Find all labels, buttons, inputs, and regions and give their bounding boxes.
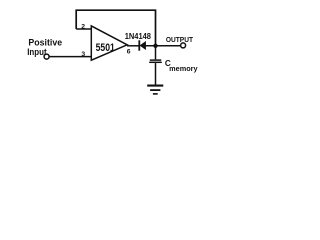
- svg-text:3: 3: [81, 51, 85, 58]
- wire pin 2 stub: [76, 28, 91, 30]
- svg-text:6: 6: [127, 48, 131, 55]
- node junction dot: [153, 44, 157, 48]
- ground: [147, 85, 163, 87]
- svg-text:Input: Input: [27, 47, 46, 57]
- svg-text:2: 2: [81, 24, 85, 31]
- op-amp U1 5501: [91, 26, 127, 60]
- diode D1 1N4148 (cathode bar left, anode right): [138, 40, 140, 50]
- svg-text:5501: 5501: [96, 42, 115, 54]
- svg-text:OUTPUT: OUTPUT: [166, 35, 194, 44]
- svg-text:memory: memory: [169, 64, 197, 73]
- node input terminal (open circle): [44, 54, 49, 59]
- wire capacitor to ground: [155, 63, 157, 85]
- wire feedback loop (pin2 up, across top, down to output node): [76, 10, 155, 45]
- wire positive input to pin 3: [49, 56, 91, 58]
- wire diode to output terminal: [146, 45, 181, 47]
- capacitor C memory: [150, 59, 161, 61]
- svg-text:1N4148: 1N4148: [125, 31, 151, 41]
- wire op-amp output to diode: [127, 45, 139, 47]
- node output terminal (open circle): [181, 43, 186, 48]
- wire junction down to capacitor: [155, 46, 157, 60]
